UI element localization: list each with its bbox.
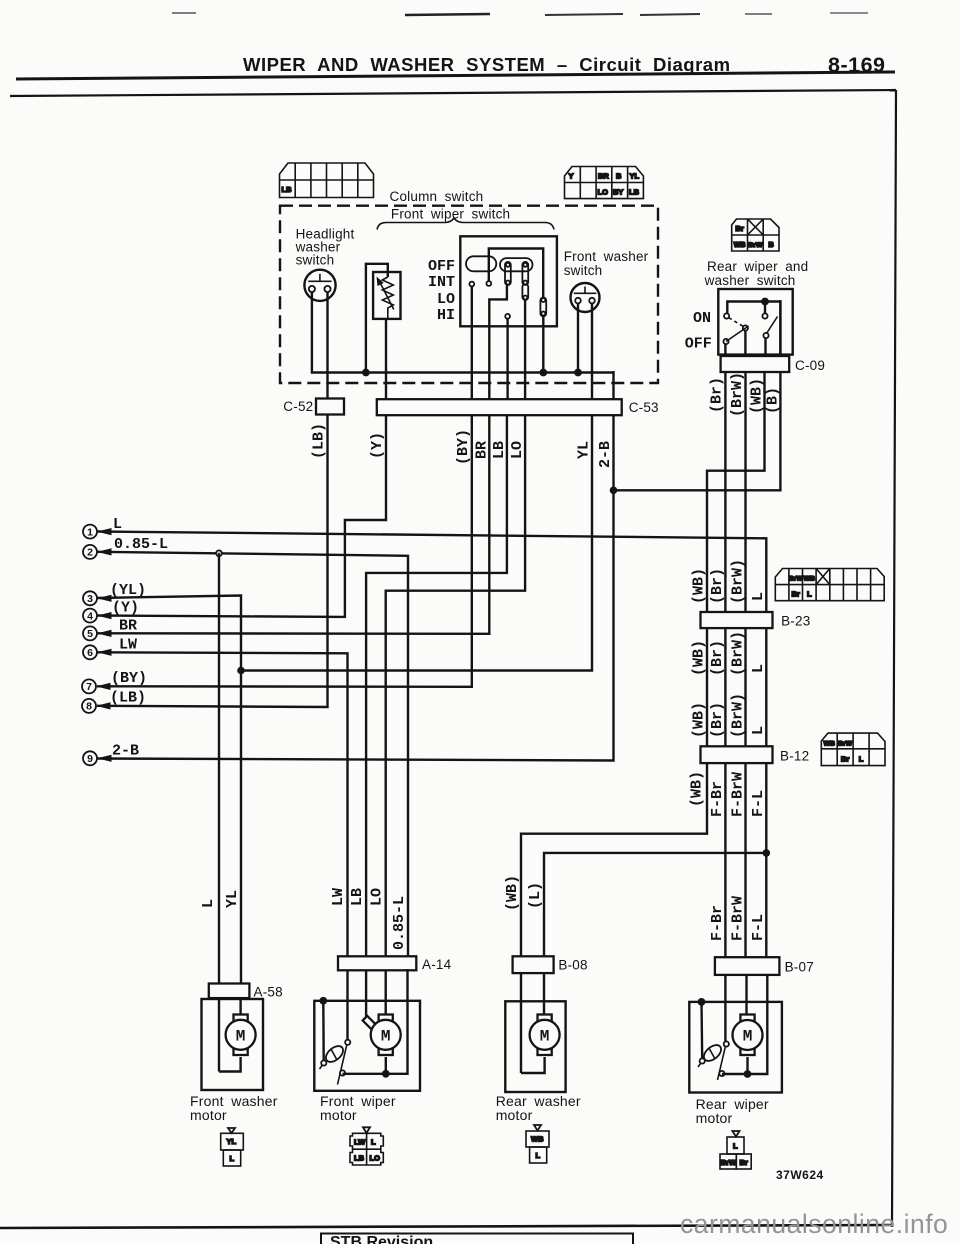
connector icon rear switch (Br X / WB BrW B) [732, 219, 779, 251]
node 8 [82, 690, 146, 713]
svg-text:LO: LO [370, 1154, 381, 1163]
stadium left [466, 256, 496, 271]
svg-text:WB: WB [531, 1135, 544, 1144]
svg-text:L: L [536, 1151, 541, 1160]
svg-text:HI: HI [437, 307, 455, 324]
svg-text:washer switch: washer switch [704, 273, 796, 288]
svg-text:L: L [750, 726, 767, 735]
svg-text:(WB): (WB) [504, 875, 521, 911]
rear wiper and washer switch box [718, 289, 792, 356]
svg-text:YL: YL [576, 441, 593, 459]
svg-text:(BrW): (BrW) [730, 693, 747, 738]
svg-text:F-Br: F-Br [709, 905, 726, 941]
wire L front washer motor drop [218, 553, 220, 985]
svg-text:(BrW): (BrW) [729, 372, 746, 417]
svg-text:(BY): (BY) [455, 429, 472, 465]
svg-text:LB: LB [354, 1154, 365, 1163]
svg-text:0.85-L: 0.85-L [114, 536, 168, 553]
pill contact right [540, 298, 546, 317]
contact OFF [469, 282, 474, 287]
connector icon B-12 grid [821, 733, 885, 766]
svg-text:B: B [616, 172, 622, 181]
svg-text:M: M [540, 1028, 550, 1046]
wire OFF contact down [471, 286, 473, 414]
svg-text:switch: switch [564, 263, 603, 278]
svg-text:LB: LB [282, 185, 293, 194]
wire right contact to C-09 [764, 338, 766, 356]
svg-text:2: 2 [87, 547, 93, 559]
right switch arm [767, 317, 778, 334]
F-Br contact [724, 975, 726, 1042]
motor bottom bus [722, 976, 767, 1074]
node 6 [83, 637, 137, 660]
wire BrW C-09 to B-23 [744, 371, 746, 614]
svg-text:(WB): (WB) [691, 568, 708, 604]
svg-text:switch: switch [296, 253, 335, 268]
contact right top [762, 313, 767, 318]
icon rear wiper connector [720, 1131, 751, 1169]
svg-text:LW: LW [354, 1138, 366, 1147]
svg-text:5: 5 [87, 628, 93, 640]
wire WB B-12 to rear washer [521, 761, 707, 958]
svg-text:B: B [768, 240, 774, 249]
wire Br B-23 to B-12 [724, 626, 726, 748]
svg-text:motor: motor [696, 1110, 733, 1126]
wire 0.85-L from node 2 to A-14 [97, 552, 408, 958]
node 3 [83, 582, 146, 605]
stadium right [500, 258, 533, 271]
wire L rear washer branch [544, 853, 766, 958]
wire YL link to C-53 YL pin [241, 413, 592, 671]
wire LB jog C-53 to A-14 [366, 413, 507, 958]
wire pill B to LO [524, 300, 526, 415]
svg-text:carmanualsonline.info: carmanualsonline.info [680, 1209, 948, 1239]
wire LB contact down [506, 319, 508, 414]
svg-text:8: 8 [86, 701, 92, 713]
wire Y from node 4 jog to C-53 Y pin [97, 413, 386, 617]
park contact wire [319, 997, 327, 1005]
svg-text:BrW: BrW [748, 242, 763, 249]
connector C-53 [377, 399, 622, 415]
svg-text:WIPER AND WASHER SYSTEM – Circ: WIPER AND WASHER SYSTEM – Circuit Diagra… [243, 54, 731, 75]
svg-text:(LB): (LB) [311, 423, 328, 459]
svg-text:motor: motor [190, 1107, 227, 1123]
svg-text:motor: motor [496, 1107, 533, 1123]
STB Revision box [321, 1234, 633, 1244]
wire 2-B from node 9 to bus [97, 371, 614, 761]
svg-text:9: 9 [87, 753, 93, 765]
svg-text:Br: Br [740, 1158, 748, 1167]
svg-text:BrW: BrW [721, 1158, 737, 1167]
svg-text:YL: YL [224, 890, 241, 908]
svg-text:Rear wiper and: Rear wiper and [707, 259, 808, 274]
svg-text:Front washer: Front washer [564, 249, 649, 264]
svg-text:M: M [236, 1028, 246, 1046]
svg-text:LO: LO [509, 441, 526, 459]
svg-text:2-B: 2-B [112, 742, 139, 759]
svg-text:(Br): (Br) [709, 568, 726, 604]
svg-text:C-53: C-53 [629, 400, 659, 415]
pivot contact [743, 325, 748, 330]
pill contact B [522, 262, 528, 285]
svg-text:(WB): (WB) [691, 640, 708, 676]
svg-text:Br: Br [841, 755, 849, 764]
svg-text:F-L: F-L [750, 914, 767, 941]
diagram border top [10, 90, 896, 96]
diagram border bottom [0, 1225, 892, 1228]
brace front wiper switch [377, 218, 554, 230]
park contact wire [698, 998, 706, 1006]
svg-text:LB: LB [349, 888, 366, 906]
svg-text:LW: LW [330, 888, 347, 906]
svg-text:3: 3 [87, 593, 93, 605]
svg-text:BrW: BrW [838, 741, 853, 748]
svg-text:37W624: 37W624 [776, 1168, 824, 1182]
wire YL from node 3 down to front washer motor [97, 596, 241, 986]
svg-text:F-Br: F-Br [709, 781, 726, 817]
svg-text:LO: LO [369, 888, 386, 906]
svg-text:Br: Br [792, 590, 800, 599]
svg-text:L: L [200, 899, 217, 908]
wire WB B-23 to B-12 [706, 626, 708, 748]
svg-text:BrW: BrW [789, 576, 804, 583]
svg-text:(BrW): (BrW) [730, 631, 747, 676]
svg-text:2-B: 2-B [597, 441, 614, 468]
connector icon top-right (Y BR B YL / LO BY LB) [565, 167, 644, 199]
junction bus / washer switch [574, 369, 582, 377]
svg-text:YL: YL [630, 172, 640, 181]
svg-text:4: 4 [87, 610, 93, 622]
wire F-L B-12 to B-07 [765, 761, 767, 959]
svg-text:0.85-L: 0.85-L [391, 896, 408, 950]
junction YL link [237, 667, 245, 675]
svg-text:F-BrW: F-BrW [730, 772, 747, 817]
svg-text:(Y): (Y) [112, 600, 139, 617]
wire Br C-09 to B-23 [724, 371, 726, 614]
svg-text:INT: INT [428, 274, 455, 291]
connector B-07 [715, 957, 780, 975]
connector B-23 [701, 612, 773, 628]
svg-text:(WB): (WB) [689, 771, 706, 807]
resistor (intermittent) [366, 264, 401, 400]
junction feed [761, 298, 769, 306]
icon front washer connector [221, 1128, 244, 1166]
svg-text:(YL): (YL) [110, 582, 146, 599]
svg-text:motor: motor [320, 1107, 357, 1123]
connector icon top-left (column switch, LB) [280, 163, 374, 198]
contact loop end [486, 281, 491, 286]
svg-text:(BrW): (BrW) [730, 559, 747, 604]
svg-text:B-08: B-08 [558, 958, 587, 973]
svg-text:L: L [859, 755, 864, 764]
switch arm dashed (ON position) [729, 318, 743, 327]
svg-text:BR: BR [119, 618, 137, 635]
svg-text:BR: BR [474, 441, 491, 459]
svg-text:M: M [743, 1028, 753, 1046]
wire HI feed down to bus [542, 316, 544, 372]
svg-text:(Br): (Br) [709, 377, 726, 413]
column switch dashed box [280, 206, 658, 383]
svg-text:(WB): (WB) [691, 702, 708, 738]
svg-text:BY: BY [613, 188, 623, 197]
park cam [323, 1043, 346, 1065]
wire LW from node 6 down to A-14 [97, 652, 348, 958]
connector C-52 [316, 399, 344, 415]
svg-text:6: 6 [87, 647, 93, 659]
wire BR from node 5 to C-53 BR pin [97, 413, 489, 634]
wire WB jog C-09 to B-23 [707, 371, 765, 614]
svg-text:L: L [371, 1138, 376, 1147]
svg-text:(L): (L) [527, 882, 544, 909]
svg-text:LO: LO [598, 188, 609, 197]
svg-text:WB: WB [804, 576, 815, 583]
junction bus / resistor [362, 369, 370, 377]
svg-text:F-L: F-L [750, 790, 767, 817]
wire F-BrW B-12 to B-07 [744, 761, 746, 959]
svg-text:C-09: C-09 [795, 358, 825, 373]
inner loop wire [489, 249, 543, 299]
park switch arm [718, 1047, 726, 1081]
svg-text:(B): (B) [765, 387, 782, 414]
wire BrW B-23 to B-12 [744, 626, 746, 748]
wire BY from node 7 to C-53 BY pin [97, 413, 472, 687]
svg-text:(Y): (Y) [369, 432, 386, 459]
pill contact A [505, 262, 511, 285]
contact OFF [723, 339, 728, 344]
svg-text:B-23: B-23 [781, 614, 810, 629]
connector B-12 [701, 746, 773, 763]
svg-text:LO: LO [437, 291, 455, 308]
node 4 [83, 600, 139, 623]
svg-text:L: L [750, 664, 767, 673]
svg-text:B-07: B-07 [785, 960, 814, 975]
svg-text:Br: Br [735, 224, 743, 233]
svg-text:(Br): (Br) [709, 702, 726, 738]
LW contact [346, 970, 348, 1040]
svg-text:(LB): (LB) [110, 690, 146, 707]
connector A-58 [209, 984, 250, 999]
svg-text:L: L [733, 1142, 738, 1151]
rear washer motor [505, 974, 565, 1092]
switch arm solid [726, 326, 749, 342]
header rule [16, 72, 895, 79]
feed wire top [727, 302, 780, 357]
junction F-L / rear washer L [763, 849, 771, 857]
junction 2-B / B link [610, 487, 618, 495]
svg-text:WB: WB [824, 741, 835, 748]
svg-text:ON: ON [693, 310, 711, 327]
F-BrW wire into motor [745, 975, 747, 1019]
svg-text:Front wiper switch: Front wiper switch [391, 207, 510, 222]
svg-text:B-12: B-12 [780, 749, 809, 764]
LB wire into brush [365, 970, 367, 1022]
LO wire into motor [385, 970, 387, 1019]
svg-text:OFF: OFF [685, 336, 712, 353]
svg-text:OFF: OFF [428, 258, 455, 275]
connector icon B-23 grid [775, 569, 884, 601]
wire L B-23 to B-12 [765, 626, 767, 748]
svg-text:(Br): (Br) [709, 640, 726, 676]
BR internal L wire [489, 286, 507, 415]
park switch arm [338, 1045, 347, 1085]
wire LB from node 8 to C-52 [97, 413, 328, 707]
park cam [701, 1042, 724, 1064]
icon rear washer connector [526, 1125, 549, 1163]
svg-text:A-14: A-14 [422, 957, 452, 972]
icon front wiper connector [350, 1127, 383, 1165]
svg-text:L: L [750, 592, 767, 601]
svg-text:Column switch: Column switch [390, 189, 484, 204]
contact LB [505, 314, 510, 319]
rear wiper motor [689, 975, 782, 1093]
wire B link C-09 to 2-B [614, 300, 781, 490]
svg-text:LB: LB [491, 441, 508, 459]
wire pivot to C-09 [744, 331, 746, 356]
contact ON [724, 313, 729, 318]
svg-text:WB: WB [734, 242, 746, 249]
svg-text:Y: Y [569, 172, 574, 181]
junction bus / wiper switch feed [539, 369, 547, 377]
svg-text:F-BrW: F-BrW [730, 896, 747, 941]
svg-text:STB Revision: STB Revision [330, 1234, 433, 1244]
front wiper motor [314, 969, 420, 1091]
svg-text:L: L [230, 1154, 235, 1163]
motor bottom bus [343, 969, 408, 1074]
svg-text:L: L [113, 516, 122, 533]
node 2 [83, 536, 168, 559]
connector A-14 [338, 956, 416, 970]
node 1 [83, 516, 122, 539]
node 7 [82, 670, 147, 693]
svg-text:1: 1 [87, 526, 93, 538]
contact right lower [763, 333, 768, 338]
wire LO jog C-53 to A-14 [386, 413, 525, 958]
svg-text:YL: YL [227, 1137, 237, 1146]
svg-text:(WB): (WB) [749, 378, 766, 414]
connector C-09 [721, 356, 790, 372]
connector B-08 [513, 956, 554, 973]
svg-text:7: 7 [86, 681, 92, 693]
front wiper switch box [460, 236, 557, 414]
svg-text:(BY): (BY) [111, 670, 147, 687]
front washer motor [202, 998, 264, 1090]
wire L from node 1 to B-23 L pin [97, 532, 766, 615]
svg-text:A-58: A-58 [254, 985, 283, 1000]
node 5 [83, 618, 137, 641]
wire F-Br B-12 to B-07 [724, 761, 726, 959]
svg-text:C-52: C-52 [283, 399, 313, 414]
svg-text:LB: LB [629, 188, 640, 197]
headlight washer switch symbol [304, 270, 335, 400]
page header artifacts [172, 13, 868, 15]
wire OFF contact to C-09 [724, 344, 726, 356]
bus wire [312, 292, 613, 372]
svg-text:L: L [807, 590, 812, 599]
svg-text:BR: BR [598, 172, 609, 181]
junction 0.85-L to front washer L [216, 550, 222, 556]
svg-text:M: M [381, 1028, 391, 1046]
diagram border right [892, 90, 896, 1227]
svg-text:LW: LW [119, 637, 137, 654]
front washer switch symbol [571, 283, 600, 413]
node 9 [83, 742, 139, 765]
